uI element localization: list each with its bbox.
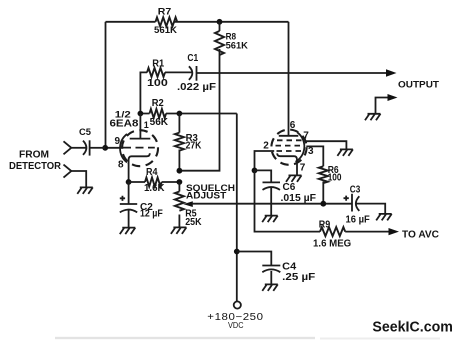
wire R8 bottom down to R3-bottom node [179, 49, 219, 171]
ground C2 [120, 228, 136, 235]
wire pin 9 to C5 node [105, 147, 123, 149]
tube V2 pentode envelope [271, 130, 306, 165]
ground C3 [376, 214, 392, 221]
svg-text:FROM: FROM [19, 150, 49, 161]
pentode grid rows (dashed) [276, 140, 304, 151]
svg-text:1.6K: 1.6K [144, 183, 165, 194]
svg-text:.015 µF: .015 µF [281, 193, 317, 204]
svg-text:561K: 561K [226, 41, 248, 52]
svg-text:1.6 MEG: 1.6 MEG [313, 238, 351, 249]
wire left vertical from top bus down to C5 node [105, 22, 107, 148]
wire output line from C1 to arrow [197, 72, 389, 74]
wire plate node horizontal R2 row to B+ vertical [179, 113, 236, 115]
node junction R6/bus [320, 201, 326, 207]
svg-text:OUTPUT: OUTPUT [398, 80, 439, 91]
ground output return [365, 114, 381, 121]
capacitor C6 [263, 182, 281, 215]
wire B+ vertical [236, 114, 238, 302]
svg-text:.25 µF: .25 µF [282, 272, 315, 283]
wire output return arm with arrow [376, 94, 398, 114]
svg-text:R4: R4 [146, 167, 158, 178]
node junction cathode/R4/C2 [126, 179, 132, 185]
node junction R4/R5 [177, 179, 183, 185]
svg-text:56K: 56K [150, 117, 169, 128]
ground input return [77, 187, 93, 194]
resistor R7 [156, 17, 178, 26]
svg-text:7: 7 [300, 162, 306, 173]
svg-text:100: 100 [328, 173, 342, 184]
wire top bus from left vertical to pentode plate corner [106, 21, 289, 23]
resistor R9 [320, 227, 390, 236]
wire R1 to C1 [165, 71, 192, 73]
svg-text:561K: 561K [154, 25, 177, 36]
resistor R8 [215, 22, 224, 55]
svg-text:R9: R9 [319, 220, 331, 231]
capacitor C1 [189, 66, 197, 81]
resistor R4 [129, 178, 180, 187]
resistor R3 [175, 114, 184, 171]
node input connector (signal) [64, 141, 72, 154]
node OUTPUT arrow [386, 69, 397, 76]
svg-text:12 µF: 12 µF [140, 209, 163, 220]
node junction grid/C6/R9 [252, 168, 258, 174]
svg-text:16 µF: 16 µF [346, 214, 370, 225]
node B+ terminal [234, 301, 241, 308]
svg-text:1: 1 [144, 120, 149, 130]
ground R5 [171, 227, 187, 234]
wire triode plate node up and to R1 [140, 72, 147, 113]
svg-text:C1: C1 [187, 53, 198, 64]
svg-text:6: 6 [290, 120, 296, 131]
svg-text:7: 7 [303, 130, 309, 141]
svg-text:100: 100 [147, 78, 168, 89]
resistor R1 [147, 68, 165, 77]
svg-text:2: 2 [263, 141, 269, 152]
wire input signal to C5 [71, 147, 86, 149]
svg-text:TO AVC: TO AVC [402, 230, 439, 241]
svg-text:6EA8: 6EA8 [110, 119, 139, 130]
ground C6 [262, 216, 278, 223]
capacitor C2 (electrolytic) [120, 182, 137, 228]
wire node down to R9 row [255, 170, 321, 231]
capacitor C3 (electrolytic) [352, 194, 385, 214]
wire pin 7 top to ground [306, 141, 347, 149]
ground pentode cathode [286, 175, 302, 182]
polarity label + (C2) [120, 196, 125, 201]
resistor R2 [140, 109, 179, 118]
svg-text:R1: R1 [152, 58, 164, 69]
node junction C5/R7-leg/grid [102, 145, 108, 151]
svg-text:ADJUST: ADJUST [186, 191, 226, 202]
resistor R6 [319, 166, 328, 203]
svg-text:3: 3 [308, 146, 314, 157]
pentode cathode [277, 153, 297, 162]
svg-text:C5: C5 [79, 127, 92, 138]
ground C4 [262, 284, 278, 291]
wire pin 2 grid to C6/R9 node [255, 151, 275, 170]
node TO AVC arrow [389, 228, 400, 235]
svg-text:C6: C6 [283, 182, 296, 193]
wire node to C6 [255, 170, 272, 182]
svg-text:VDC: VDC [228, 320, 244, 330]
wire cathode pin 7 to ground [296, 161, 298, 175]
capacitor C4 [262, 266, 280, 285]
capacitor C5 [83, 140, 105, 155]
svg-text:C3: C3 [350, 185, 361, 196]
svg-text:9: 9 [115, 136, 121, 147]
scan artifact smudge [55, 337, 315, 339]
potentiometer R5 [175, 182, 193, 227]
svg-text:27K: 27K [186, 140, 202, 151]
svg-text:R7: R7 [158, 7, 172, 18]
node input connector (return) [64, 165, 72, 178]
polarity label + (C3) [344, 196, 349, 201]
wire squelch wiper bus to C3 [192, 203, 352, 205]
node junction R7/R8 [217, 19, 223, 25]
svg-text:.022 µF: .022 µF [177, 82, 216, 93]
svg-text:8: 8 [118, 160, 124, 171]
wire node to C4 [237, 252, 271, 266]
svg-text:R2: R2 [152, 98, 164, 109]
ground pin 7 top [337, 149, 353, 156]
node junction R2/R3 [177, 111, 183, 117]
node junction B+/C4 [234, 249, 240, 255]
triode cathode [129, 153, 150, 164]
tube V1 triode 1/2 6EA8 envelope [120, 130, 158, 166]
svg-text:DETECTOR: DETECTOR [9, 161, 62, 172]
node junction R3/R8/R4/R5 [177, 168, 183, 174]
triode grid (dashed) [123, 147, 155, 149]
svg-text:C4: C4 [282, 261, 296, 272]
pin 6 wire (pentode plate) from top bus [288, 22, 290, 136]
wire cathode to R4/C2 node [128, 163, 130, 182]
svg-text:25K: 25K [185, 217, 202, 228]
node junction plate/R1/R2 [138, 111, 144, 117]
wire pin 3 to R6 [306, 146, 323, 166]
pin 1 wire (triode plate) [139, 114, 141, 139]
pentode plate bar [279, 135, 299, 137]
wire input return to ground [71, 171, 86, 187]
svg-text:SeekIC.com: SeekIC.com [372, 320, 453, 336]
triode plate bar [130, 138, 151, 140]
